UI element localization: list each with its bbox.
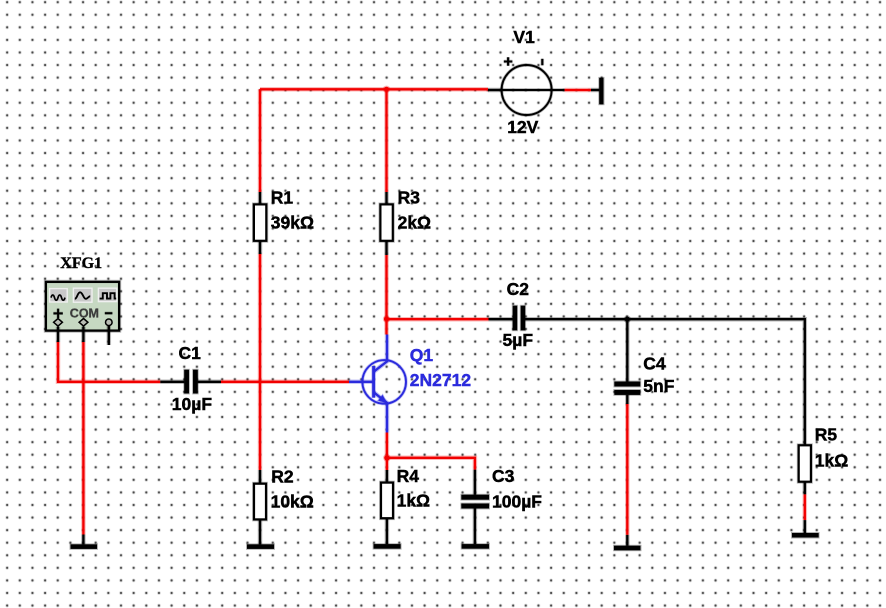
wire V1 to ground (565, 88, 591, 93)
wire emitter node to C3 (387, 458, 475, 470)
ground under XFG1 COM (71, 535, 98, 549)
resistor R5 1k (799, 424, 849, 494)
svg-text:C2: C2 (507, 279, 530, 299)
svg-text:39kΩ: 39kΩ (271, 212, 314, 232)
node junction at R3 column top (383, 86, 390, 93)
wire R3 column top (384, 89, 389, 192)
resistor R3 2k (380, 188, 431, 255)
svg-text:1kΩ: 1kΩ (815, 450, 849, 470)
wire top feed from R1 column to V1 (260, 87, 488, 92)
svg-text:100µF: 100µF (492, 491, 542, 511)
transistor Q1 2N2712 (349, 335, 471, 433)
resistor R1 39k (254, 188, 314, 254)
ground under R5 (792, 520, 819, 537)
ground under R4 (374, 544, 401, 548)
ground under C3 (462, 544, 489, 548)
wire R1 column top (258, 89, 263, 192)
svg-text:C3: C3 (492, 466, 515, 486)
svg-text:C4: C4 (643, 353, 666, 373)
svg-text:5nF: 5nF (643, 376, 674, 396)
ground at V1 right (591, 78, 604, 104)
wire collector node to C2 (387, 317, 489, 322)
svg-text:12V: 12V (507, 117, 538, 137)
svg-text:R5: R5 (815, 424, 838, 444)
svg-text:R1: R1 (271, 188, 294, 208)
svg-text:Q1: Q1 (410, 345, 434, 365)
wire XFG1 minus stub (107, 326, 112, 345)
svg-text:C1: C1 (179, 343, 202, 363)
capacitor C4 5nF (614, 319, 674, 404)
svg-text:2N2712: 2N2712 (410, 370, 472, 390)
wire R3 bottom to collector node (384, 255, 389, 319)
svg-text:R4: R4 (397, 466, 420, 486)
capacitor C3 100uF (461, 466, 542, 544)
wire R5 bottom (803, 494, 808, 520)
node junction collector C2 tap (383, 315, 390, 322)
wire R1 bottom through base node to R2 (258, 254, 263, 470)
wire XFG1 COM terminal to ground (81, 327, 86, 535)
wire emitter node to R4 (385, 458, 390, 470)
svg-text:2kΩ: 2kΩ (398, 212, 432, 232)
wire C2 right to R5 top (525, 319, 805, 445)
resistor R4 1k (381, 466, 430, 544)
wire C4 bottom to ground (625, 404, 630, 535)
svg-text:R2: R2 (271, 467, 294, 487)
node junction C4 tap (624, 316, 631, 323)
capacitor C2 5uF (489, 279, 534, 350)
wire XFG1 plus terminal to C1 (58, 327, 160, 382)
capacitor C1 10uF (160, 343, 221, 414)
function generator XFG1 (46, 255, 119, 330)
wire Q1 emitter down (385, 433, 390, 458)
ground under C4 (614, 535, 641, 550)
svg-text:10kΩ: 10kΩ (271, 492, 314, 512)
svg-text:1kΩ: 1kΩ (397, 491, 431, 511)
svg-text:XFG1: XFG1 (60, 255, 102, 272)
wire collector node down to Q1 (384, 319, 389, 335)
svg-text:10µF: 10µF (172, 394, 213, 414)
svg-text:5µF: 5µF (503, 330, 534, 350)
ground under R2 (247, 544, 274, 548)
voltage source V1 12V (488, 27, 565, 137)
resistor R2 10k (254, 467, 314, 545)
svg-text:V1: V1 (513, 27, 535, 47)
svg-text:R3: R3 (398, 188, 421, 208)
node junction emitter (383, 454, 391, 462)
wire C1 to Q1 base (221, 380, 349, 385)
